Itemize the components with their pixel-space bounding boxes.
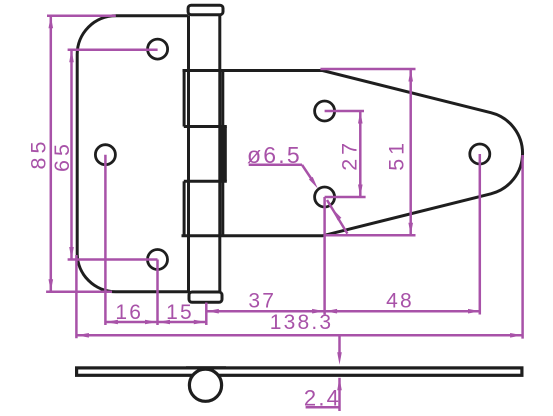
barrel right edge <box>218 16 221 292</box>
left leaf hole middle <box>95 145 115 165</box>
extension line tip hole <box>479 154 482 315</box>
knuckle joint line 1 <box>184 125 227 128</box>
dim 16 dimension line <box>105 321 157 324</box>
dim 48 dimension line <box>325 310 481 313</box>
svg-text:48: 48 <box>386 290 414 313</box>
hinge pin bottom cap <box>189 292 222 302</box>
svg-text:138.3: 138.3 <box>270 311 334 334</box>
hinge pin top cap <box>188 5 223 15</box>
dim 2.4 label underline <box>306 406 340 409</box>
dim 85 bottom extension <box>46 291 112 294</box>
dim 2.4 upper leg <box>338 335 341 352</box>
dim 65 bottom extension <box>68 258 158 261</box>
knuckle outer left edge upper <box>183 71 186 127</box>
left leaf hole top <box>148 39 168 59</box>
dia 6.5 leader underline <box>249 164 302 167</box>
svg-text:27: 27 <box>338 139 362 171</box>
svg-text:65: 65 <box>50 140 74 172</box>
right leaf hole top <box>315 101 335 121</box>
right leaf hole bottom <box>315 187 335 207</box>
dim 2.4 lower leg <box>338 378 341 411</box>
svg-text:15: 15 <box>166 301 194 324</box>
extension line right end <box>521 155 524 339</box>
knuckle outer left edge lower <box>183 181 186 236</box>
extension line middle hole <box>104 155 107 325</box>
dim 85 top extension <box>47 14 116 17</box>
knuckle joint line 2 <box>184 180 227 183</box>
dim 37 dimension line <box>206 310 324 313</box>
side view plate top line over barrel <box>186 366 226 369</box>
middle knuckle thick right edge <box>220 127 227 182</box>
extension line left leaf edge <box>75 255 78 338</box>
svg-text:16: 16 <box>115 301 143 324</box>
side view plate <box>77 368 522 375</box>
extension line pin center <box>205 303 208 326</box>
dim 51 bottom extension <box>325 234 416 237</box>
dim 27 top extension <box>325 110 364 113</box>
svg-text:85: 85 <box>27 138 51 170</box>
left leaf hole bottom <box>148 250 168 270</box>
dim 15 dimension line <box>158 321 207 324</box>
dim 85 dimension line <box>50 16 53 292</box>
svg-text:2.4: 2.4 <box>304 386 341 411</box>
right hinge leaf outline <box>182 71 523 236</box>
extension line right lower hole <box>323 197 326 315</box>
svg-text:37: 37 <box>248 290 276 313</box>
dia 6.5 leader second segment <box>327 200 347 234</box>
dim 51 dimension line <box>409 69 412 235</box>
dim 51 top extension <box>320 68 415 71</box>
dim 65 top extension <box>68 48 158 51</box>
dia 6.5 leader line to hole <box>302 165 313 181</box>
side view barrel circle <box>189 369 221 401</box>
knuckle outer right edge lower <box>221 181 224 236</box>
dim 138.3 dimension line <box>76 334 522 337</box>
dim 27 bottom extension <box>325 196 366 199</box>
svg-text:51: 51 <box>385 139 409 171</box>
barrel left edge <box>187 16 190 292</box>
knuckle outer right edge upper <box>221 71 224 127</box>
extension line bottom hole <box>156 260 159 326</box>
right leaf hole tip <box>470 144 490 164</box>
left hinge leaf outline <box>77 16 190 292</box>
dim 65 dimension line <box>70 50 73 260</box>
dim 27 dimension line <box>359 111 362 197</box>
